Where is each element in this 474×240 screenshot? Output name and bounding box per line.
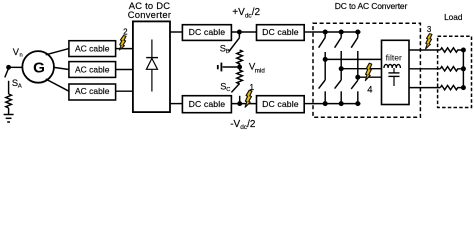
- switch top leg A: [319, 32, 326, 48]
- resistor grounding RA: [6, 94, 12, 108]
- phase wire C to filter: [358, 76, 382, 78]
- node bus A2: [323, 101, 328, 106]
- switch bottom leg B: [335, 80, 342, 104]
- wire DC cable to node -Vdc/2: [231, 103, 256, 105]
- switch top leg B: [335, 32, 342, 48]
- wire converter to DC cable top: [170, 31, 182, 33]
- switch SC blade: [231, 84, 239, 93]
- svg-text:AC cable: AC cable: [75, 86, 110, 96]
- DC cable box top-left: [182, 25, 231, 41]
- load resistor c: [440, 85, 463, 89]
- load dashed box: [438, 36, 472, 107]
- top DC bus: [313, 31, 361, 33]
- svg-text:3: 3: [427, 25, 432, 34]
- resistor divider upper half: [237, 50, 243, 67]
- wire Vmid to ground: [223, 66, 240, 68]
- node Vmid: [237, 65, 242, 70]
- wire DC cable to DC-AC converter bottom: [304, 103, 313, 105]
- svg-text:2: 2: [123, 27, 128, 36]
- svg-text:B: B: [226, 49, 230, 55]
- node bus B: [339, 30, 344, 35]
- svg-text:4: 4: [367, 84, 372, 95]
- load neutral bus: [462, 50, 464, 88]
- AC to DC converter box U1: [133, 21, 170, 112]
- svg-text:Converter: Converter: [128, 9, 171, 20]
- switch SC lower stub: [239, 96, 241, 102]
- load resistor a: [440, 48, 463, 52]
- leg vertical B: [340, 51, 342, 80]
- svg-text:A: A: [18, 84, 22, 90]
- diode D1: [151, 40, 153, 92]
- wire generator to AC cable 1: [46, 49, 69, 55]
- node load c: [461, 85, 466, 90]
- bottom DC bus: [313, 103, 361, 105]
- wire AC cable 1 to converter: [116, 48, 133, 50]
- phase wire A to filter: [325, 58, 381, 60]
- AC cable box 1: [69, 41, 116, 57]
- node bus B2: [339, 101, 344, 106]
- svg-text:Load: Load: [444, 12, 463, 22]
- capacitor C1: [388, 68, 399, 86]
- svg-text:DC cable: DC cable: [189, 99, 226, 109]
- node phase C: [355, 75, 360, 80]
- filter box: [382, 40, 410, 104]
- fault bolt 4: [365, 63, 371, 80]
- svg-text:filter: filter: [386, 52, 402, 62]
- svg-text:DC cable: DC cable: [262, 27, 299, 37]
- switch SA blade: [5, 69, 9, 78]
- wire filter to load b: [409, 68, 440, 70]
- fault bolt 1: [245, 90, 252, 107]
- wire DC cable to node B: [231, 31, 256, 33]
- wire filter to load c: [409, 87, 440, 89]
- switch bottom leg A: [319, 80, 326, 104]
- wire converter to DC cable bottom: [170, 103, 182, 105]
- leg vertical C: [357, 51, 359, 80]
- switch bottom leg C: [351, 80, 358, 103]
- node +Vdc/2: [237, 30, 242, 35]
- node Vn: [6, 65, 11, 70]
- svg-text:1: 1: [249, 82, 254, 92]
- wire generator to AC cable 2: [54, 67, 69, 69]
- resistor divider lower half: [237, 67, 243, 84]
- svg-text:DC cable: DC cable: [189, 27, 226, 37]
- svg-text:DC to AC Converter: DC to AC Converter: [335, 1, 408, 11]
- svg-text:n: n: [20, 53, 23, 59]
- svg-text:DC cable: DC cable: [262, 99, 299, 109]
- svg-text:G: G: [33, 59, 45, 76]
- node phase A: [323, 57, 328, 62]
- wire resistor to ground: [8, 108, 10, 115]
- svg-text:mid: mid: [255, 67, 266, 74]
- switch top leg C: [351, 32, 358, 48]
- fault bolt 2: [120, 36, 127, 50]
- node load b: [461, 66, 466, 71]
- wire generator to AC cable 3: [46, 79, 69, 91]
- DC to AC converter dashed box: [313, 23, 420, 117]
- load resistor b: [440, 67, 463, 71]
- wire DC cable to DC-AC converter top: [304, 31, 313, 33]
- fault bolt 3: [426, 34, 432, 49]
- node -Vdc/2: [237, 101, 242, 106]
- wire node to generator: [9, 66, 22, 68]
- node bus C: [355, 30, 360, 35]
- node phase B: [339, 66, 344, 71]
- switch SB stub: [238, 32, 240, 38]
- inductor L1: [384, 64, 400, 68]
- leg vertical A: [324, 52, 326, 80]
- svg-text:AC cable: AC cable: [75, 65, 110, 75]
- node bus C2: [355, 101, 360, 106]
- AC cable box 3: [69, 84, 116, 100]
- wire AC cable 3 to converter: [116, 90, 133, 92]
- switch SB blade: [229, 38, 240, 52]
- DC cable box bottom-right: [257, 96, 305, 113]
- node bus A: [323, 30, 328, 35]
- AC cable box 2: [69, 62, 116, 78]
- ground mid (left-pointing): [218, 63, 222, 72]
- generator G: [22, 51, 54, 83]
- wire SA lower stub: [8, 81, 10, 94]
- wire filter to load a: [409, 49, 440, 51]
- svg-text:C: C: [226, 87, 230, 93]
- svg-text:AC cable: AC cable: [75, 44, 110, 54]
- wire AC cable 2 to converter: [116, 69, 133, 71]
- phase wire B to filter: [341, 68, 381, 70]
- ground: [4, 115, 14, 123]
- node load a: [461, 48, 466, 53]
- DC cable box bottom-left: [182, 96, 231, 113]
- DC cable box top-right: [257, 25, 305, 41]
